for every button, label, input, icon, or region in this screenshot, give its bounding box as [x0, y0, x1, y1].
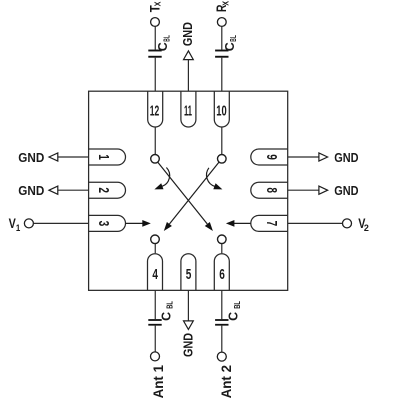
wire Rx to CBL [221, 26, 223, 49]
svg-text:3: 3 [95, 221, 111, 227]
wire V1 to pin3 [33, 222, 88, 224]
pin 5 [181, 254, 196, 291]
wire pin4 to CBL [154, 290, 156, 319]
wire Tx to CBL [154, 26, 156, 49]
wire CBL to Ant1 [154, 326, 156, 352]
node throw C (pin4) [151, 235, 160, 244]
svg-text:GND: GND [181, 333, 195, 357]
wire pin9 to gnd [288, 156, 319, 158]
svg-text:10: 10 [216, 104, 226, 120]
pin 11 [181, 91, 196, 127]
wire CBL to pin10 [221, 58, 223, 91]
wire pin10 to pole B [221, 127, 223, 154]
toggle arc left [154, 168, 169, 190]
label Rx [213, 1, 231, 12]
svg-text:11: 11 [184, 104, 192, 120]
svg-text:Ant 1: Ant 1 [150, 365, 166, 399]
svg-text:9: 9 [263, 154, 279, 160]
svg-text:12: 12 [150, 104, 160, 120]
switch arm B to C [164, 162, 219, 231]
svg-text:GND: GND [334, 184, 358, 198]
package outline U1 [89, 91, 288, 290]
Rx terminal [217, 18, 226, 27]
ground left 2 [49, 186, 58, 194]
svg-text:C: C [226, 311, 241, 321]
wire pole C to pin4 [154, 244, 156, 253]
svg-text:8: 8 [263, 187, 279, 193]
svg-text:4: 4 [152, 267, 158, 283]
switch arm A to D [158, 162, 213, 231]
wire CBL to Ant2 [221, 326, 223, 352]
node pole B (pin10) [218, 155, 227, 164]
V2 drive arrow [226, 220, 251, 227]
label Tx [146, 1, 162, 12]
svg-text:1: 1 [16, 223, 21, 234]
ground left 1 [49, 153, 58, 161]
pin 7 [251, 215, 288, 231]
svg-text:GND: GND [18, 151, 44, 165]
wire pin8 to gnd [288, 189, 319, 191]
svg-text:GND: GND [334, 151, 358, 165]
pin 6 [214, 254, 229, 291]
svg-text:1: 1 [95, 154, 111, 160]
svg-text:5: 5 [186, 267, 192, 283]
node throw D (pin6) [218, 235, 227, 244]
wire pin1 to gnd [58, 156, 89, 158]
svg-text:X: X [220, 1, 230, 6]
wire pin12 to pole A [154, 127, 156, 154]
label CBL (Rx) [222, 35, 238, 51]
label V2 [358, 215, 369, 234]
svg-text:GND: GND [18, 184, 44, 198]
ground right 8 [319, 186, 328, 194]
pin 9 [251, 149, 288, 165]
svg-text:7: 7 [263, 221, 279, 227]
Ant 1 terminal [151, 352, 160, 361]
wire pin7 to V2 [288, 222, 343, 224]
pin 4 [148, 254, 163, 291]
capacitor CBL (Ant2) [215, 320, 228, 325]
wire pin2 to gnd [58, 189, 89, 191]
label CBL (Ant2) [226, 301, 242, 321]
wire pin6 to CBL [221, 290, 223, 319]
wire pole D to pin6 [221, 244, 223, 253]
ground bottom [184, 321, 194, 330]
pin 12 [148, 91, 163, 127]
ground right 9 [319, 153, 328, 161]
label CBL (Ant1) [158, 301, 174, 321]
pin 1 [89, 149, 126, 165]
label CBL (Tx) [155, 35, 171, 51]
capacitor CBL (Tx) [148, 51, 161, 57]
capacitor CBL (Ant1) [148, 320, 161, 325]
svg-text:GND: GND [181, 22, 195, 46]
svg-text:2: 2 [95, 187, 111, 193]
V1 terminal [24, 219, 33, 228]
svg-text:C: C [158, 311, 173, 321]
pin 3 [89, 215, 126, 231]
wire CBL to pin12 [154, 58, 156, 91]
svg-text:2: 2 [364, 223, 369, 234]
svg-text:C: C [155, 42, 170, 52]
svg-text:C: C [222, 42, 237, 52]
Tx terminal [151, 18, 160, 27]
svg-text:BL: BL [233, 301, 242, 309]
ground top [184, 51, 194, 60]
wire pin5 to gnd [187, 290, 189, 321]
svg-text:Ant 2: Ant 2 [218, 365, 234, 399]
svg-text:X: X [152, 1, 162, 6]
svg-text:BL: BL [229, 35, 238, 42]
pin 8 [251, 182, 288, 198]
V1 drive arrow [126, 220, 151, 227]
pin 2 [89, 182, 126, 198]
wire gnd-top to pin11 [187, 60, 189, 91]
svg-text:BL: BL [166, 301, 175, 309]
svg-text:BL: BL [162, 35, 171, 42]
V2 terminal [343, 219, 352, 228]
pin 10 [214, 91, 229, 127]
label V1 [9, 215, 21, 234]
Ant 2 terminal [217, 352, 226, 361]
node pole A (pin12) [151, 155, 160, 164]
capacitor CBL (Rx) [215, 51, 228, 57]
svg-text:6: 6 [219, 267, 225, 283]
toggle arc right [207, 168, 223, 190]
